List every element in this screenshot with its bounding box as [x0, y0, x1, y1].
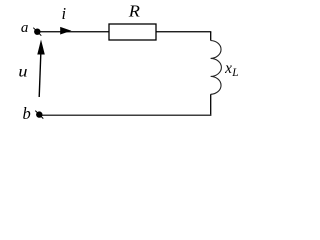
wire right vertical lower [210, 94, 212, 115]
wire top horizontal right [156, 31, 211, 33]
resistor R [109, 24, 156, 40]
wire right vertical upper [210, 32, 212, 41]
wire top horizontal left [37, 31, 109, 33]
node a terminal dot [33, 28, 41, 36]
svg-text:x: x [224, 60, 232, 77]
node b terminal dot [35, 111, 43, 119]
inductor xL coil [211, 41, 222, 95]
svg-text:R: R [128, 2, 140, 21]
svg-text:b: b [23, 104, 31, 123]
svg-text:a: a [21, 20, 29, 36]
voltage arrow u shaft [39, 54, 41, 97]
svg-text:i: i [62, 4, 67, 23]
svg-text:L: L [231, 67, 238, 79]
current arrow i [60, 27, 71, 35]
voltage arrow u head [37, 40, 45, 55]
wire bottom horizontal [39, 114, 211, 116]
svg-text:u: u [18, 64, 27, 81]
